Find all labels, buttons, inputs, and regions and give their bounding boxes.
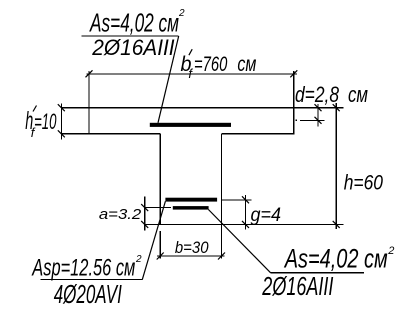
fraction bar bottom-right label [271, 272, 364, 274]
flange bottom right segment [222, 133, 295, 135]
svg-text:b=30: b=30 [175, 239, 209, 257]
svg-text:a=3.2: a=3.2 [99, 206, 142, 223]
tick b right [218, 253, 225, 260]
svg-text:As=4,02 см: As=4,02 см [283, 244, 387, 274]
tick d bottom [315, 117, 322, 124]
extension line a [145, 207, 171, 209]
flange right edge [293, 71, 295, 134]
svg-text:2: 2 [178, 8, 185, 19]
svg-text:g=4: g=4 [251, 205, 282, 226]
tick b'f right [290, 70, 297, 77]
tick a top [141, 204, 148, 211]
svg-text:4Ø20AVI: 4Ø20AVI [54, 279, 122, 309]
svg-text:d=2,8: d=2,8 [295, 82, 340, 107]
leader bottom-right label [208, 210, 270, 273]
tick h top [333, 104, 340, 111]
svg-text:2: 2 [387, 245, 394, 257]
web right edge [221, 134, 223, 259]
dimension line d [317, 104, 319, 127]
svg-text:2: 2 [135, 254, 142, 265]
bottom rebar bar upper [165, 198, 217, 202]
flange bottom left segment [61, 133, 161, 135]
dash-dot extension for d [295, 119, 297, 121]
tick a bottom [141, 221, 148, 228]
tick h'f bottom [58, 130, 65, 137]
tick b left [157, 253, 164, 260]
web bottom line with right extension [144, 223, 344, 225]
svg-text:=760: =760 [194, 53, 228, 76]
svg-text:2Ø16AIII: 2Ø16AIII [262, 271, 334, 301]
dimension line b'f [87, 73, 298, 75]
dimension line a [144, 196, 146, 230]
flange top line with left/right extension [61, 107, 344, 109]
tick g top [242, 196, 249, 203]
web left edge [159, 134, 161, 225]
dimension line b [157, 255, 224, 257]
svg-text:h=60: h=60 [344, 171, 384, 194]
top rebar bar 2d16AIII [150, 123, 231, 127]
dimension line h'f [60, 104, 62, 140]
dimension line h [335, 103, 337, 229]
svg-text:см: см [237, 53, 256, 76]
svg-text:=10: =10 [34, 109, 57, 134]
svg-text:Asp=12.56 см: Asp=12.56 см [31, 255, 135, 282]
svg-text:As=4,02 см: As=4,02 см [89, 8, 179, 38]
extension line b left [159, 231, 161, 258]
tick g bottom [242, 221, 249, 228]
flange left edge [88, 71, 90, 134]
fraction bar bottom-left label [41, 279, 143, 281]
svg-text:см: см [348, 82, 368, 107]
leader bottom-left label [142, 201, 165, 279]
tick h'f top [58, 104, 65, 111]
bottom rebar bar lower [173, 206, 209, 210]
dimension line g [245, 195, 247, 230]
leader top-left label [158, 36, 179, 123]
fraction bar top-left label [82, 35, 179, 37]
tick d top [315, 104, 322, 111]
tick b'f left [86, 70, 93, 77]
svg-text:2Ø16AIII: 2Ø16AIII [91, 35, 174, 60]
tick h bottom [333, 221, 340, 228]
extension line g [222, 199, 251, 201]
